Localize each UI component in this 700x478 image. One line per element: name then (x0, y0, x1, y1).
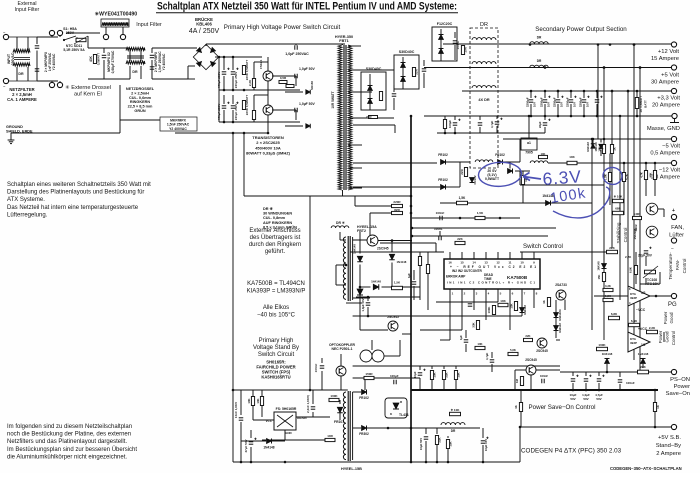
svg-text:GND: GND (285, 431, 293, 435)
resistor 100K standby (329, 398, 339, 401)
svg-text:2200µF: 2200µF (579, 97, 583, 107)
svg-text:10V: 10V (573, 102, 577, 107)
svg-text:Y2 400VAC: Y2 400VAC (169, 127, 187, 131)
resistor 1K q8 (547, 298, 550, 307)
wire transformer bottom to emitters (342, 190, 344, 196)
svg-text:Im Bestückungsplan sind zur be: Im Bestückungsplan sind zur besseren Übe… (7, 446, 137, 453)
transistor Q10 fan drive (646, 203, 658, 215)
ground symbol earth (10, 133, 12, 140)
svg-text:S30D40C: S30D40C (399, 50, 415, 54)
terminal pair filter2 (103, 34, 108, 39)
wire -12 aux rail to TL431 area (364, 378, 366, 390)
svg-text:−5 Volt: −5 Volt (662, 144, 680, 150)
resistor 22K above IC (455, 241, 465, 244)
svg-text:50V: 50V (596, 397, 601, 401)
svg-text:6,8K: 6,8K (631, 319, 638, 323)
svg-text:SB02: SB02 (634, 224, 638, 231)
junction dots +5 rail (603, 66, 606, 69)
svg-text:✳ 10K: ✳ 10K (614, 195, 624, 199)
common-mode choke DR2 (Netzdrossel) (129, 48, 131, 61)
wire filter2 bottom (88, 78, 130, 80)
wire long vertical 8 from +5 (591, 139, 593, 330)
svg-text:0,68µF 275VAC: 0,68µF 275VAC (111, 50, 115, 73)
svg-text:Secondary Power Output Section: Secondary Power Output Section (535, 26, 627, 33)
terminal PS-ON (671, 369, 676, 374)
svg-text:NEC P2501-1: NEC P2501-1 (332, 347, 353, 351)
capacitor 100nF sub (479, 116, 481, 120)
svg-text:10: 10 (520, 261, 524, 265)
node bridge + (218, 56, 221, 59)
resistor 4,7K fan feed a (645, 163, 647, 171)
line-filter coil WYE041T00490 (101, 19, 129, 27)
wire cap bank rails (219, 56, 262, 58)
electrolytic cap 47uF 50V standby (250, 430, 252, 438)
wire y205 long (440, 202, 592, 204)
diode 1N4148 save-on a (605, 359, 610, 364)
diode SR160 Q2 (306, 124, 311, 129)
capacitor 10uF 50V bottom a (425, 428, 427, 434)
svg-text:393P: 393P (630, 341, 637, 345)
wire +12V rail (443, 43, 672, 45)
transistor Q11 fan drive (646, 226, 658, 238)
wire standby rail y390 (233, 389, 348, 391)
resistor 10K fan feed b (654, 163, 656, 171)
capacitor CX1 (36, 37, 38, 44)
svg-text:DR ✳: DR ✳ (336, 221, 345, 225)
capacitor 100nF save-on (541, 379, 543, 384)
svg-text:22R: 22R (366, 115, 372, 119)
resistor 10K standby B (261, 390, 263, 396)
svg-text:22K: 22K (445, 372, 449, 377)
svg-text:Good: Good (665, 331, 670, 343)
svg-text:16: 16 (448, 261, 452, 265)
svg-text:47µF 50V: 47µF 50V (244, 439, 248, 452)
svg-text:DR: DR (537, 36, 542, 40)
svg-text:CUL. 0,6mm: CUL. 0,6mm (129, 96, 152, 100)
svg-text:BATT: BATT (644, 100, 648, 108)
coil DR* small (331, 226, 349, 228)
svg-text:220R: 220R (393, 200, 401, 204)
svg-text:Good: Good (669, 312, 674, 324)
svg-text:2200µF: 2200µF (566, 97, 570, 107)
diode FR107 (337, 407, 343, 413)
svg-text:10K: 10K (477, 342, 482, 346)
svg-text:1N4148C: 1N4148C (558, 309, 562, 321)
svg-text:150R: 150R (365, 372, 373, 376)
svg-text:Stand−By: Stand−By (656, 443, 681, 449)
svg-text:100K: 100K (598, 343, 606, 347)
svg-text:2,2K: 2,2K (625, 255, 632, 259)
electrolytic capacitor C7 (223, 95, 225, 104)
resistor 10K midband (567, 161, 577, 164)
svg-text:KBL406: KBL406 (196, 22, 212, 27)
capacitor 100nF near IC (438, 236, 440, 241)
resistor 43K 0,5WATT vertical (93, 55, 96, 64)
electrolytic cap 4,7uF 50V (496, 116, 498, 119)
svg-text:CUL. 0,8mm: CUL. 0,8mm (263, 216, 286, 220)
svg-text:1K: 1K (542, 300, 546, 304)
title underline (156, 12, 458, 14)
svg-text:2200µF: 2200µF (540, 97, 544, 107)
svg-text:Das Netzteil hat intern eine t: Das Netzteil hat intern eine temperaturg… (7, 205, 139, 211)
svg-text:2SC945: 2SC945 (377, 247, 389, 251)
coil DR2 +12V filter (530, 42, 548, 44)
thermistor TC108 NTC 10K (645, 270, 656, 274)
resistor 82R (392, 211, 403, 214)
wire +3,3V rail (462, 90, 672, 92)
svg-text:ATX Systeme.: ATX Systeme. (7, 197, 45, 203)
svg-text:Power: Power (674, 384, 691, 390)
wire y133 left box top (175, 132, 268, 134)
svg-text:Save−On: Save−On (666, 391, 690, 397)
resistor 10K standby A (252, 390, 254, 396)
svg-text:2SC945: 2SC945 (525, 358, 537, 362)
wire thick save-on bus (411, 389, 658, 391)
svg-text:10µF 15V: 10µF 15V (484, 439, 488, 451)
dual diode module D33 F12C20C (432, 27, 457, 61)
wire cross horizontals below IC (436, 301, 498, 303)
svg-text:68R: 68R (615, 207, 621, 211)
terminal +5V (671, 65, 676, 70)
capacitor C8 (232, 95, 234, 104)
svg-text:CA. 1 AMPERE: CA. 1 AMPERE (7, 97, 37, 102)
svg-text:30 Ampere: 30 Ampere (651, 80, 679, 86)
svg-text:✳ 10K: ✳ 10K (451, 408, 461, 412)
svg-text:1N4148: 1N4148 (602, 352, 613, 356)
resistor 10R standby (325, 438, 335, 441)
wire left boundary vertical (232, 133, 234, 462)
resistor 1M save-on (520, 377, 523, 386)
svg-text:Switch Control: Switch Control (523, 243, 563, 250)
svg-text:100nF: 100nF (434, 227, 443, 231)
svg-text:2SA733: 2SA733 (555, 283, 567, 287)
electrolytic cap 22uF 50V fan (636, 251, 642, 253)
blue arrow to 6.3V (523, 173, 541, 181)
wire long vertical control 6 (633, 45, 635, 361)
wire switch to filter2 (66, 32, 100, 34)
coil DR +3.3V (472, 86, 496, 88)
resistor base Q1 2,2K (252, 79, 255, 88)
svg-text:Lüfter: Lüfter (669, 233, 684, 239)
wire to terminals (37, 36, 58, 38)
terminal -12V (671, 160, 676, 165)
dual diode module D31 S30D40C (361, 72, 386, 110)
junction dots +3,3 rail (611, 90, 614, 93)
svg-text:1K: 1K (613, 147, 617, 151)
electrolytic capacitor output bank C43 2200uF (570, 91, 572, 98)
blue ellipse around 1,8K resistor (602, 166, 623, 185)
svg-text:10R: 10R (464, 46, 468, 52)
svg-text:−12 Volt: −12 Volt (659, 168, 681, 174)
svg-text:100µF: 100µF (390, 374, 399, 378)
svg-text:393P: 393P (630, 296, 637, 300)
capacitor 100uF TL431 (388, 381, 394, 383)
power transistor Q2 2SC2625 (263, 105, 273, 115)
resistor 10K h below IC (475, 346, 485, 349)
diode FR102 a (441, 160, 446, 165)
resistor 68R right mid (613, 211, 624, 214)
svg-text:a1: a1 (527, 141, 531, 145)
wire input bottom (9, 80, 37, 82)
svg-text:100nF: 100nF (540, 374, 548, 378)
svg-text:2,2K: 2,2K (649, 326, 656, 330)
terminal -5V (671, 136, 676, 141)
resistor 15K bottom (447, 436, 449, 438)
capacitor below IC a (468, 303, 473, 305)
svg-text:14: 14 (472, 261, 476, 265)
wire +5V rail (424, 67, 672, 69)
svg-text:Masse, GND: Masse, GND (647, 126, 680, 132)
input terminal N (3, 78, 8, 83)
svg-text:12: 12 (496, 261, 500, 265)
boxed label MKP/MPX 1,5nF 250VAC Y2 400VAC (160, 117, 197, 131)
svg-text:Control: Control (671, 331, 676, 346)
op-amp U4B KIA393P (628, 332, 650, 352)
svg-text:F12C20C: F12C20C (437, 22, 453, 26)
svg-text:3,3K: 3,3K (605, 284, 611, 288)
capacitor module1 (393, 85, 395, 92)
capacitor 1,0uF 50V Q2 (294, 108, 296, 113)
electrolytic capacitor C6 470uF 250V (232, 57, 234, 70)
svg-text:0,5WATT: 0,5WATT (485, 177, 500, 181)
svg-text:FAN,: FAN, (671, 225, 684, 231)
svg-text:RINGKERN: RINGKERN (130, 100, 151, 104)
svg-text:✳ Externe Drossel: ✳ Externe Drossel (65, 84, 111, 91)
diode SR160 Q1 (306, 90, 311, 95)
diode 1N4148 y205 (546, 201, 551, 206)
wire inner boundary vertical (243, 133, 245, 196)
svg-text:FS1B1: FS1B1 (259, 59, 263, 69)
blue ellipse around zener 20SV (478, 161, 522, 187)
svg-text:15K: 15K (597, 274, 601, 279)
svg-text:PS−ON: PS−ON (670, 377, 690, 383)
resistor 1K vertical right (653, 403, 656, 412)
svg-text:100K: 100K (330, 394, 338, 398)
svg-text:1M: 1M (515, 378, 519, 383)
svg-text:22µF 50V: 22µF 50V (638, 254, 653, 258)
svg-text:Alle Elkos: Alle Elkos (263, 305, 289, 311)
capacitor module2 (423, 60, 425, 66)
junction dots +12 rail (609, 43, 612, 46)
wires fan control (645, 256, 647, 266)
resistor 6,8K fan (634, 266, 637, 275)
capacitor 1,0uF 50V Q1 (294, 74, 296, 79)
svg-text:1,0µF 50V: 1,0µF 50V (299, 67, 315, 71)
diode FR102 b lower (441, 185, 446, 190)
svg-text:die Aluminiumkühlkörper nicht: die Aluminiumkühlkörper nicht eingezeich… (7, 454, 127, 460)
wire opamp1 out to PG (650, 295, 671, 297)
resistor 6,8R Q1 (286, 85, 294, 88)
svg-text:1K: 1K (514, 405, 518, 409)
resistor row 22K (443, 366, 445, 369)
terminal pair bottom (49, 82, 54, 87)
NTC SD11 thermistor (76, 38, 86, 41)
svg-text:DR: DR (451, 429, 456, 433)
terminal +3,3V (671, 88, 676, 93)
diode FR102 vertical (470, 178, 475, 183)
svg-text:5,1R 250V 5A: 5,1R 250V 5A (63, 48, 85, 52)
svg-text:auf Kern EI: auf Kern EI (74, 92, 102, 98)
resistor row 15K (455, 366, 457, 369)
svg-text:Y2 400VAC: Y2 400VAC (162, 53, 166, 70)
electrolytic capacitor output bank C44 2200uF (583, 91, 585, 98)
coil DR2 +5V filter (530, 65, 548, 67)
wire diodes join (446, 161, 470, 163)
resistor 5,6K below IC (508, 352, 518, 355)
svg-text:Schaltplan ATX Netzteil 350 Wa: Schaltplan ATX Netzteil 350 Watt für INT… (157, 1, 457, 13)
svg-text:GROUND: GROUND (6, 125, 23, 129)
wire y228 long (412, 227, 556, 229)
input terminal L (3, 34, 8, 39)
svg-text:FS: 5H0165R: FS: 5H0165R (276, 407, 297, 411)
svg-text:22µF: 22µF (538, 121, 542, 128)
svg-text:PG: PG (668, 302, 677, 308)
resistor 22K ps-on (638, 370, 649, 374)
svg-text:6.3V: 6.3V (542, 166, 583, 189)
svg-text:FBT1: FBT1 (339, 39, 349, 43)
svg-text:−40 bis 105°C: −40 bis 105°C (257, 313, 296, 319)
wire y196 horizontal (268, 195, 411, 197)
terminal +12V (671, 42, 676, 47)
svg-text:−VCC: −VCC (636, 308, 646, 312)
resistor 22K bottom (436, 428, 438, 434)
resistor module3 (461, 46, 464, 55)
svg-text:2SC945: 2SC945 (536, 349, 548, 353)
svg-text:ERROR AMP: ERROR AMP (446, 275, 466, 279)
wire PS-ON line (560, 371, 671, 373)
resistor 22R module1 (369, 116, 378, 119)
svg-text:8,5 × 3,1mm GRÜN: 8,5 × 3,1mm GRÜN (263, 224, 297, 229)
wire bridge in top (196, 47, 197, 49)
svg-text:FR302: FR302 (359, 432, 369, 436)
svg-text:Control: Control (682, 259, 687, 274)
wire long vertical control 5 (627, 91, 629, 350)
svg-text:1N4148: 1N4148 (397, 260, 407, 264)
wire -5V feed y163 (353, 162, 437, 164)
svg-text:+5 Volt: +5 Volt (661, 73, 679, 79)
svg-text:Temperature-: Temperature- (668, 252, 673, 280)
op-amp U4A KIA393P (628, 286, 650, 306)
svg-text:FR102: FR102 (495, 153, 505, 157)
terminal FAN minus (671, 238, 676, 243)
capacitor 1,0uF 50V opto (367, 296, 369, 301)
svg-text:✳WYE041T00490: ✳WYE041T00490 (95, 12, 138, 18)
resistor 3,3K (603, 288, 613, 291)
capacitor 22uF 50V mid (544, 116, 546, 120)
svg-text:4A / 250V: 4A / 250V (189, 28, 220, 35)
resistor 220R (392, 204, 403, 207)
svg-text:15 Ampere: 15 Ampere (651, 56, 679, 62)
svg-text:+VCC: +VCC (638, 327, 648, 331)
svg-text:Stabilizing: Stabilizing (616, 222, 621, 243)
svg-text:0,5R: 0,5R (280, 76, 287, 80)
resistor 22R vertical midband (464, 168, 467, 177)
wire switch-control rail (350, 251, 444, 253)
wire +5VSB rail (520, 426, 671, 428)
resistor 10K pair B (610, 145, 613, 154)
wire long vertical control 1 (597, 45, 599, 140)
svg-text:Primary High Voltage Power Swi: Primary High Voltage Power Switch Circui… (224, 24, 341, 31)
svg-text:DR ✳: DR ✳ (263, 206, 274, 211)
terminal FAN (671, 214, 676, 219)
svg-text:80WATT 0,33µS (3MHZ): 80WATT 0,33µS (3MHZ) (246, 151, 291, 156)
resistor 6,8K mid (609, 316, 620, 319)
resistor 1,8K circled (608, 173, 611, 182)
svg-text:4X DR: 4X DR (478, 98, 489, 102)
wire y236 long (412, 235, 548, 237)
resistor 15K right (602, 273, 605, 282)
transformer T3 HYEEL-15B standby lower (343, 392, 346, 460)
wire right col verticals 2 (603, 252, 605, 260)
diode 1N4148 standby (267, 439, 272, 444)
capacitor 4,7uF below IC (491, 352, 493, 358)
wire long vertical control 3 (611, 91, 613, 248)
svg-text:Im folgenden sind zu diesem Ne: Im folgenden sind zu diesem Netzteilscha… (7, 424, 132, 430)
wires opamp region (594, 295, 628, 297)
resistor 6,8K mid2 (629, 323, 640, 326)
svg-text:Schaltplan eines weiteren Scha: Schaltplan eines weiteren Schaltnetzteil… (7, 182, 151, 188)
svg-text:1N4148: 1N4148 (594, 142, 598, 152)
resistor 100R below rail (444, 116, 446, 119)
coil DR bottom (441, 423, 465, 425)
transformer T1 HYER-350 primary/secondary (338, 45, 342, 190)
capacitor 100nF standby (321, 358, 323, 363)
svg-text:43K: 43K (89, 55, 93, 62)
svg-text:+: + (672, 208, 675, 214)
svg-text:des Übertragers ist: des Übertragers ist (250, 234, 301, 241)
wire long vertical control 2 (603, 68, 605, 341)
svg-text:220µF 250V: 220µF 250V (234, 72, 238, 88)
resistor 33K below IC (476, 321, 479, 330)
svg-text:1,0µF 50V: 1,0µF 50V (299, 102, 315, 106)
diode 1N4148 opto a (357, 256, 363, 262)
svg-text:15K: 15K (449, 441, 453, 446)
svg-text:Y2 400VAC: Y2 400VAC (52, 53, 56, 70)
svg-text:100µF: 100µF (448, 120, 452, 128)
svg-text:1,5K: 1,5K (477, 211, 484, 215)
svg-text:220K 0,5WATT: 220K 0,5WATT (245, 60, 249, 81)
svg-text:7905: 7905 (525, 151, 533, 155)
wire bridge out right (215, 56, 222, 58)
svg-text:2200µF: 2200µF (526, 97, 530, 107)
svg-text:10V: 10V (560, 102, 564, 107)
svg-text:4,7K: 4,7K (640, 172, 644, 178)
capacitor 100nF y218 (439, 216, 441, 221)
svg-text:2,2nF 1,6KV): 2,2nF 1,6KV) (306, 395, 310, 413)
electrolytic cap row a +10uF 50V (419, 366, 421, 370)
terminal Masse GND (672, 113, 677, 118)
diode 1N4148 save-on b (641, 359, 646, 364)
svg-text:Input Filter: Input Filter (136, 22, 162, 28)
output inductor array 4xDR dashed box (470, 28, 498, 168)
svg-text:Darstellung des Platinenlayout: Darstellung des Platinenlayouts und Best… (7, 190, 144, 196)
IC pin stubs bottom (449, 289, 451, 296)
svg-text:1N4148: 1N4148 (558, 323, 562, 333)
svg-text:100K: 100K (487, 307, 491, 314)
svg-text:KA7500B = TL494CN: KA7500B = TL494CN (247, 281, 305, 287)
svg-text:5,6K: 5,6K (510, 348, 516, 352)
svg-text:22K: 22K (609, 246, 615, 250)
regulator IC 7905 (521, 138, 537, 150)
wire bridge top bus (206, 43, 345, 45)
svg-text:10K: 10K (247, 398, 251, 403)
wire -12V rail y163->terminal (515, 170, 530, 172)
resistor base Q2 2,2K (252, 111, 255, 120)
svg-text:10R 5WATT: 10R 5WATT (331, 91, 335, 108)
svg-text:+3,3 Volt: +3,3 Volt (657, 96, 680, 102)
diode 1N4148 right mid (600, 139, 602, 143)
svg-text:KIA393P = LM393N/P: KIA393P = LM393N/P (247, 289, 306, 295)
